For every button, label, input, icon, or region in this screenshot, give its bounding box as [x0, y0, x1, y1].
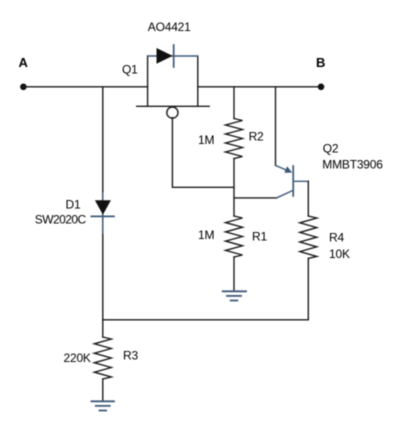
node B	[318, 84, 325, 91]
svg-text:10K: 10K	[329, 247, 350, 261]
wire rail left (A to Q1 source)	[23, 86, 147, 88]
diode D1	[91, 193, 114, 233]
resistor R4	[300, 216, 317, 258]
svg-text:A: A	[19, 55, 29, 70]
svg-text:MMBT3906: MMBT3906	[322, 158, 383, 172]
svg-text:D1: D1	[66, 198, 81, 212]
svg-text:R1: R1	[252, 229, 267, 243]
transistor Q1 (P-MOSFET)	[137, 45, 210, 118]
wire branch A to D1/R3	[102, 87, 104, 337]
svg-text:Q2: Q2	[323, 142, 339, 156]
wire R2 bottom to R1 top	[233, 159, 235, 217]
wire rail to Q2 emitter	[275, 87, 277, 166]
body diode of Q1	[157, 48, 173, 64]
svg-text:B: B	[316, 55, 325, 70]
wire R4 to bottom wire	[307, 258, 309, 319]
wire R3 to ground	[102, 379, 104, 401]
resistor R2	[226, 119, 243, 159]
node A	[20, 84, 27, 91]
wire Q2 base to R4	[307, 181, 309, 216]
wire R1 to ground	[233, 257, 235, 291]
svg-text:R2: R2	[249, 129, 264, 143]
wire bottom (R3 node to R4)	[103, 319, 308, 321]
svg-text:R3: R3	[123, 349, 138, 363]
svg-text:AO4421: AO4421	[148, 20, 191, 34]
wire Q1 gate to R2/R1 node	[172, 118, 234, 188]
transistor Q2 (PNP)	[276, 165, 309, 198]
svg-text:220K: 220K	[64, 351, 91, 365]
svg-text:1M: 1M	[198, 228, 214, 242]
ground (below R1)	[223, 291, 246, 300]
ground (below R3)	[92, 401, 115, 410]
svg-text:1M: 1M	[198, 133, 214, 147]
wire Q2 collector to R2/R1 node	[234, 197, 277, 199]
wire rail to R2	[233, 87, 235, 119]
resistor R1	[226, 216, 243, 257]
svg-text:SW2020C: SW2020C	[35, 213, 87, 227]
svg-text:Q1: Q1	[122, 63, 138, 77]
wire rail right (Q1 drain to B)	[198, 86, 321, 88]
resistor R3	[94, 337, 111, 379]
svg-text:R4: R4	[329, 230, 344, 244]
